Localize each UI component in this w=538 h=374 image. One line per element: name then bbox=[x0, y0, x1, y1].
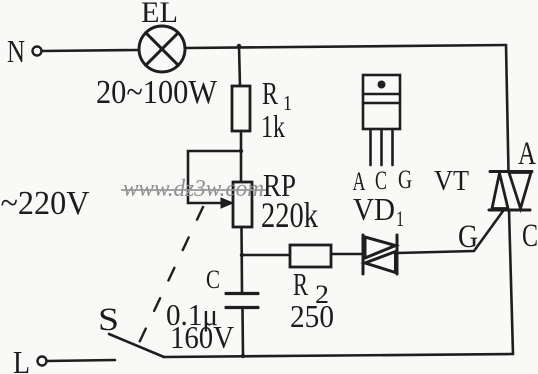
svg-text:R: R bbox=[262, 75, 278, 111]
svg-text:~220V: ~220V bbox=[1, 185, 90, 222]
svg-text:1k: 1k bbox=[261, 108, 285, 144]
svg-text:C: C bbox=[206, 265, 220, 294]
svg-text:VD: VD bbox=[353, 191, 395, 227]
svg-text:C: C bbox=[522, 218, 538, 254]
svg-text:S: S bbox=[98, 302, 119, 338]
svg-text:G: G bbox=[398, 165, 412, 194]
svg-text:A: A bbox=[518, 136, 536, 172]
svg-text:VT: VT bbox=[434, 165, 469, 197]
svg-text:R: R bbox=[293, 266, 308, 302]
svg-text:220k: 220k bbox=[261, 195, 318, 235]
svg-text:G: G bbox=[458, 219, 478, 255]
svg-text:160V: 160V bbox=[170, 319, 234, 355]
svg-text:EL: EL bbox=[141, 0, 178, 29]
svg-text:20~100W: 20~100W bbox=[96, 74, 218, 111]
svg-text:N: N bbox=[7, 33, 25, 69]
svg-text:www.dz3w.com: www.dz3w.com bbox=[123, 176, 264, 202]
svg-text:1: 1 bbox=[396, 206, 404, 231]
svg-text:L: L bbox=[13, 344, 30, 374]
svg-text:250: 250 bbox=[290, 298, 334, 334]
